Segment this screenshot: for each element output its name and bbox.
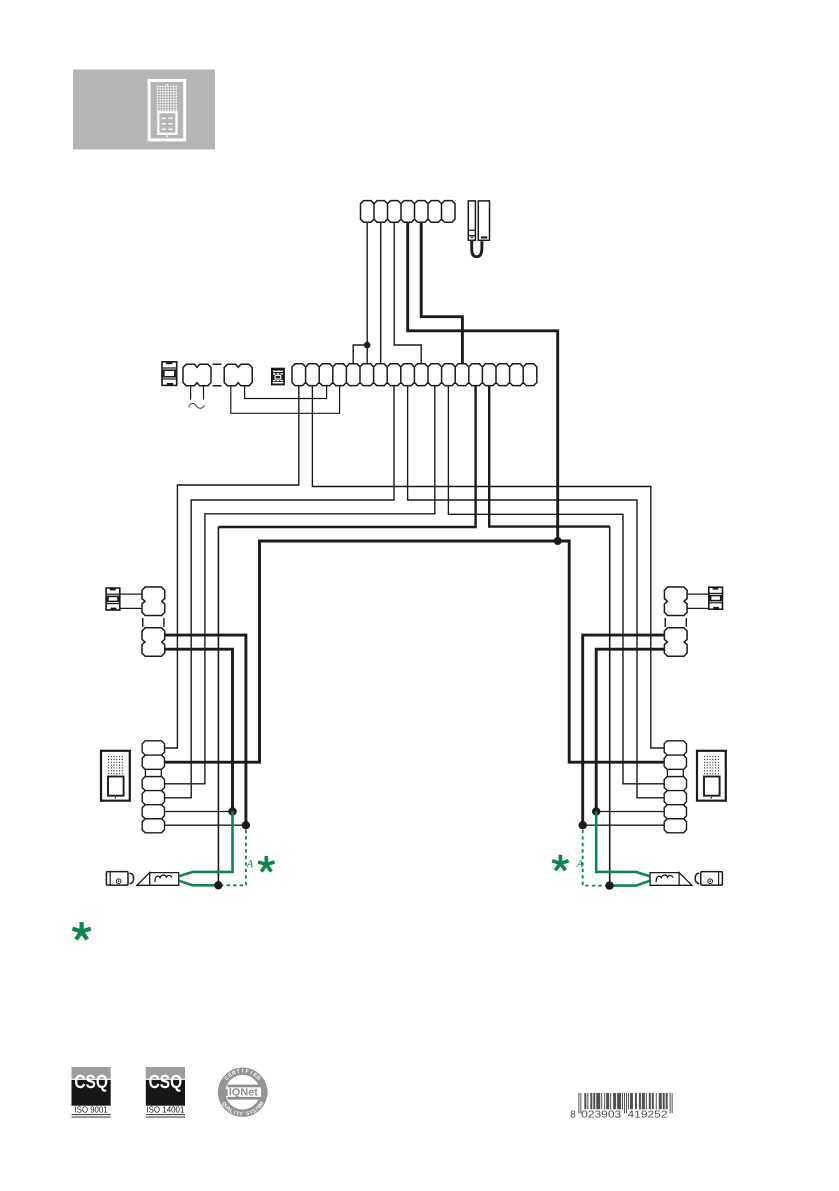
green wire W2 to node C2	[610, 881, 650, 886]
dashed continuation VP1-VP2	[143, 618, 164, 627]
wire door B terminal 6 to node B2	[596, 811, 664, 813]
EAN-13 barcode 8023903419252	[570, 1093, 672, 1121]
green wire W1 to node C1	[179, 881, 218, 886]
node B2	[592, 807, 600, 815]
svg-text:A: A	[246, 859, 254, 870]
svg-text:ISO 9001: ISO 9001	[75, 1105, 108, 1115]
green dashed wire node A1 to node C1	[223, 830, 246, 886]
electric lock LK1	[106, 872, 133, 886]
junction node J2	[554, 537, 562, 545]
wire TS1-2 to strip T7	[380, 222, 382, 363]
terminal pair VP3	[664, 587, 687, 616]
terminal pair P2	[224, 364, 252, 385]
door station A terminal block	[142, 741, 164, 833]
wire strip T11 to door A terminal 4	[165, 386, 435, 784]
dashed strip continuation P1-P2	[213, 364, 222, 385]
door station A icon	[101, 751, 130, 801]
node B1	[579, 821, 587, 829]
thick wire VP4 bottom to node B2	[596, 649, 664, 811]
green wire W2 to node B2	[596, 811, 650, 876]
handset U1	[468, 201, 489, 257]
svg-text:A: A	[576, 859, 584, 870]
svg-text:IQNet: IQNet	[229, 1087, 258, 1099]
dashed continuation VP3-VP4	[665, 618, 686, 627]
svg-text:CSQ: CSQ	[149, 1072, 183, 1093]
node A2	[228, 807, 236, 815]
interface module M1	[271, 368, 285, 386]
lock striker W1	[137, 873, 179, 886]
power supply PSU1	[162, 362, 177, 386]
door station B terminal block	[664, 741, 686, 833]
header door-station icon	[149, 80, 185, 139]
thick wire VP2 top to node A1	[165, 635, 246, 825]
thick wire TS1-4 to right riser	[408, 222, 558, 541]
wire strip T1 to door A terminal 1	[165, 386, 299, 748]
mains AC symbol ~	[189, 403, 205, 408]
wire strip T2 to door B terminal 1	[312, 386, 664, 748]
thick wire VP2 bottom to node A2	[165, 649, 233, 811]
wire left lock bus drop	[217, 527, 219, 885]
green wire W1 to node A2	[179, 811, 233, 876]
wires VP3 to PSU3	[687, 594, 709, 608]
terminal pair VP4	[664, 628, 687, 657]
power supply PSU2	[106, 588, 120, 610]
terminal pair P1	[183, 364, 211, 385]
svg-text:023903: 023903	[581, 1110, 622, 1121]
svg-text:CSQ: CSQ	[74, 1072, 108, 1093]
thick bus wire J2 to left riser and door A terminal 2	[165, 541, 558, 762]
wire strip T14 to left lock bus	[218, 386, 475, 527]
node C1	[214, 881, 222, 889]
thick wire TS1-5 to strip T13	[421, 222, 462, 363]
svg-text:8: 8	[570, 1110, 576, 1121]
footnote asterisk (right branch)	[552, 855, 568, 871]
wire door A terminal 7 to node A1	[165, 824, 246, 826]
wire junction down to strip T6	[366, 345, 368, 364]
junction node J1	[364, 342, 371, 349]
node C2	[605, 881, 613, 889]
header panel background	[73, 70, 215, 150]
terminal pair VP2	[142, 628, 165, 657]
footnote asterisk (left branch)	[258, 856, 274, 872]
thick bus wire J2 to right riser and door B terminal 2	[558, 541, 665, 762]
wire strip T12 to door B terminal 4	[448, 386, 664, 784]
green dashed wire node B1 to node C2	[583, 830, 606, 886]
wire P2 right to strip T3	[245, 386, 327, 399]
IQNet certification logo	[218, 1069, 268, 1118]
node A1	[242, 821, 250, 829]
wire P1 mains leads	[191, 386, 204, 400]
CSQ ISO 14001 logo	[146, 1067, 185, 1118]
wire strip T15 to right lock bus	[489, 386, 610, 527]
wire door A terminal 6 to node A2	[165, 811, 233, 813]
wire door B terminal 7 to node B1	[583, 824, 665, 826]
wire right lock bus drop	[609, 527, 611, 886]
wire TS1-1 down to junction	[366, 222, 368, 345]
wire branch junction to strip T5	[353, 345, 367, 364]
electric lock LK2	[695, 872, 722, 886]
terminal pair VP1	[142, 587, 165, 616]
door station B icon	[697, 751, 726, 801]
thick wire VP4 top to node B1	[583, 635, 665, 825]
CSQ ISO 9001 logo	[72, 1067, 111, 1118]
svg-text:419252: 419252	[628, 1110, 669, 1121]
apartment terminal strip TS1 (7 terminals)	[361, 201, 456, 223]
wires PSU2 to pair VP1	[120, 594, 142, 608]
wire strip T8 to door A terminal 5	[165, 386, 395, 798]
footnote asterisk (legend)	[72, 922, 90, 939]
wire strip T9 to door B terminal 5	[408, 386, 665, 798]
svg-text:ISO 14001: ISO 14001	[146, 1105, 184, 1115]
wire TS1-3 jog to strip T10	[394, 222, 421, 363]
lock striker W2	[650, 873, 692, 886]
wire P2 left to strip T4	[231, 386, 340, 414]
main terminal strip TS2 (18 terminals)	[292, 364, 537, 386]
power supply PSU3	[709, 587, 723, 609]
